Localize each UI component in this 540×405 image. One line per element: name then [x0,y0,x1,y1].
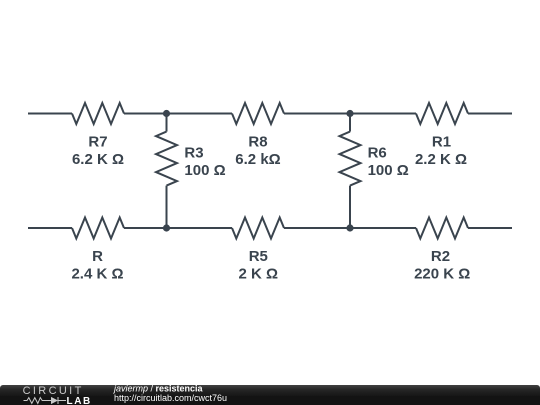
wire top-right [468,113,512,115]
svg-text:R2: R2 [431,248,450,265]
svg-text:LAB: LAB [67,396,92,405]
logo diode triangle [51,397,58,404]
svg-text:2.2 K Ω: 2.2 K Ω [415,151,467,168]
wire bottom between R5 and R2 [284,227,416,229]
wire top between R7 and R8 [124,113,232,115]
resistor R2 [416,218,468,239]
wire vertical right top lead [349,114,351,132]
svg-text:http://circuitlab.com/cwct76u: http://circuitlab.com/cwct76u [114,393,227,403]
svg-text:100 Ω: 100 Ω [184,162,225,179]
wire bottom-right [468,227,512,229]
node top-right junction [346,110,353,117]
resistor R [72,218,124,239]
svg-text:R7: R7 [88,133,107,150]
logo diode [57,397,59,404]
resistor R8 [232,103,284,124]
svg-text:R3: R3 [184,144,203,161]
svg-text:R1: R1 [432,133,451,150]
svg-text:2 K Ω: 2 K Ω [239,266,279,283]
svg-text:R: R [92,248,103,265]
svg-text:6.2 K Ω: 6.2 K Ω [72,151,124,168]
wire top between R8 and R1 [284,113,416,115]
wire vertical left top lead [166,114,168,132]
wire vertical right bottom lead [349,186,351,228]
resistor R1 [416,103,468,124]
svg-text:R5: R5 [249,248,268,265]
wire vertical left bottom lead [166,186,168,228]
wire top-left [28,113,72,115]
logo resistor squiggle [24,397,67,404]
svg-text:220 K Ω: 220 K Ω [414,266,470,283]
wire bottom between R and R5 [124,227,232,229]
resistor R6 [340,132,361,186]
node top-left junction [163,110,170,117]
svg-text:6.2 kΩ: 6.2 kΩ [235,151,280,168]
resistor R5 [232,218,284,239]
node bottom-left junction [163,224,170,231]
node bottom-right junction [346,224,353,231]
svg-text:R8: R8 [248,133,267,150]
svg-text:javiermp / resistencia: javiermp / resistencia [113,383,204,393]
resistor R3 [156,132,177,186]
svg-text:100 Ω: 100 Ω [368,162,409,179]
wire bottom-left [28,227,72,229]
resistor R7 [72,103,124,124]
svg-text:2.4 K Ω: 2.4 K Ω [71,266,123,283]
svg-text:R6: R6 [368,144,387,161]
